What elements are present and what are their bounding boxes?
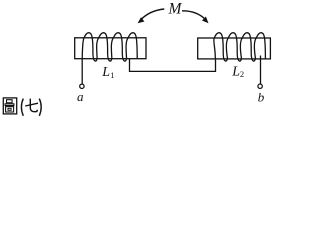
- svg-text:1: 1: [110, 70, 114, 80]
- inductor L1 winding (4 turns): [82, 33, 137, 61]
- inductor L1 core: [75, 38, 146, 59]
- svg-text:a: a: [77, 89, 84, 104]
- inductor L2 winding (4 turns): [214, 33, 266, 61]
- wire L1 right end to L2 left end: [130, 59, 216, 72]
- 圖 bottom inner mark: [8, 108, 11, 110]
- wire from L2 to terminal b: [260, 56, 262, 84]
- mutual inductance arrow left: [140, 9, 165, 21]
- right paren: [39, 99, 41, 116]
- svg-text:M: M: [167, 0, 182, 17]
- 七 horizontal stroke: [25, 103, 38, 106]
- svg-text:L: L: [101, 65, 110, 80]
- inductor L2 core: [198, 38, 271, 59]
- 圖 outer box: [3, 98, 16, 114]
- 圖 middle bar: [5, 104, 14, 106]
- wire from L1 to terminal a: [81, 59, 83, 84]
- caption 圖(七) hand-drawn: [3, 98, 41, 116]
- left paren: [21, 99, 23, 116]
- 七 vertical-hook stroke: [30, 99, 37, 112]
- terminal a: [80, 84, 84, 88]
- arrowhead right: [202, 17, 209, 24]
- svg-text:2: 2: [240, 69, 244, 79]
- mutual inductance arrow right: [182, 11, 206, 20]
- arrowhead left: [138, 17, 145, 23]
- terminal b: [258, 84, 262, 88]
- 圖 bottom box: [6, 107, 14, 112]
- svg-text:b: b: [258, 90, 265, 105]
- 圖 top small box: [7, 100, 13, 103]
